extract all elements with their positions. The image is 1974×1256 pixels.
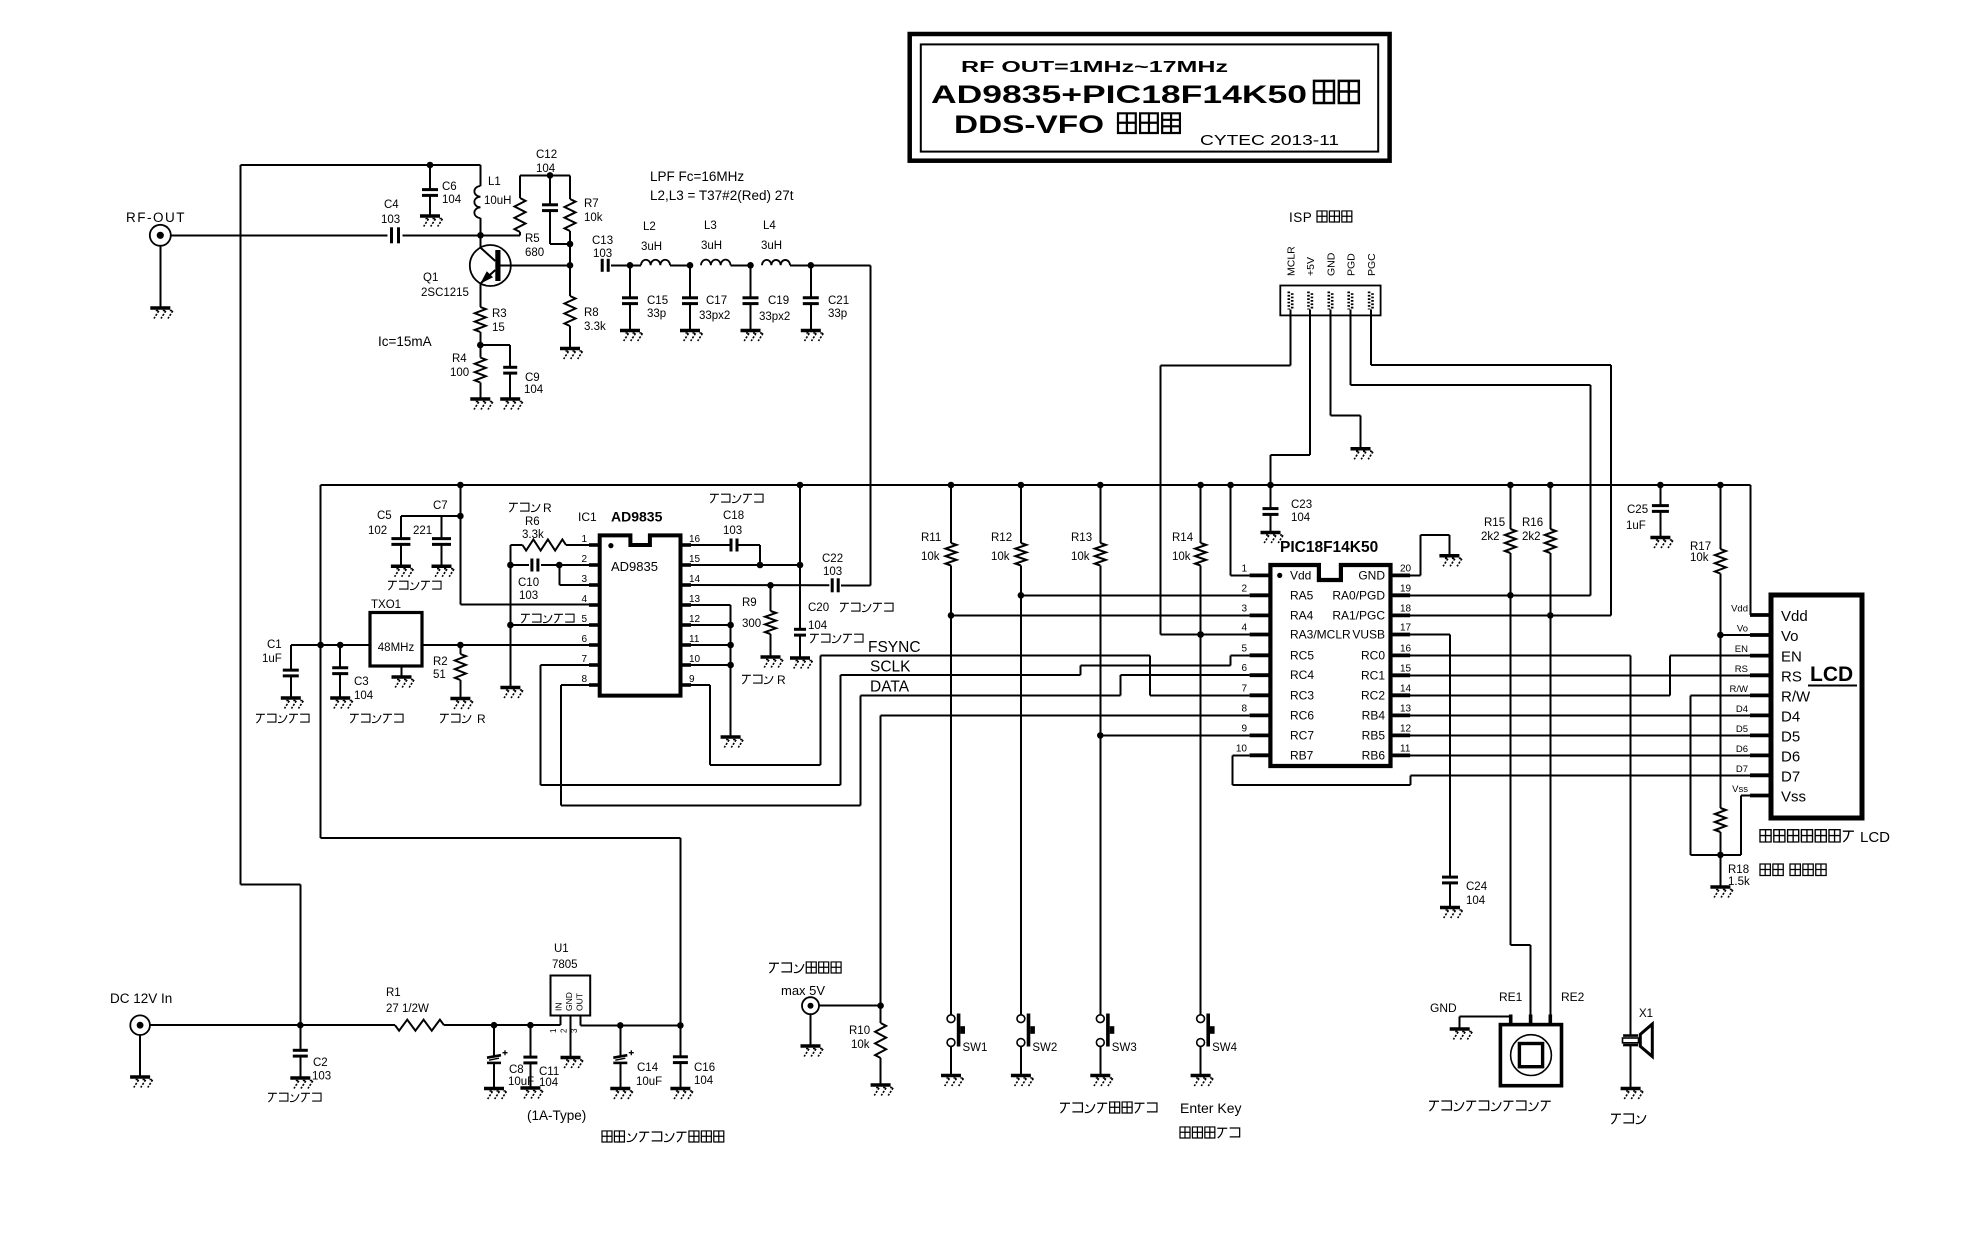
svg-text:D7: D7 bbox=[1781, 768, 1800, 785]
svg-text:10: 10 bbox=[1236, 743, 1248, 754]
svg-text:9: 9 bbox=[689, 674, 695, 685]
svg-text:R/W: R/W bbox=[1781, 688, 1811, 705]
svg-text:IN: IN bbox=[553, 1003, 563, 1012]
svg-text:R2: R2 bbox=[433, 656, 448, 668]
svg-text:Vss: Vss bbox=[1732, 784, 1748, 795]
svg-text:C9: C9 bbox=[525, 372, 540, 384]
svg-text:GND: GND bbox=[1358, 569, 1385, 583]
svg-text:4: 4 bbox=[1241, 623, 1247, 634]
svg-text:GND: GND bbox=[1430, 1001, 1457, 1015]
svg-text:12: 12 bbox=[1400, 723, 1412, 734]
svg-text:17: 17 bbox=[1400, 623, 1412, 634]
svg-text:RA4: RA4 bbox=[1290, 608, 1314, 622]
svg-text:C5: C5 bbox=[377, 510, 392, 522]
svg-text:6: 6 bbox=[581, 634, 587, 645]
svg-text:11: 11 bbox=[1400, 743, 1411, 754]
svg-text:C6: C6 bbox=[442, 181, 457, 193]
svg-text:C4: C4 bbox=[384, 199, 399, 211]
svg-text:104: 104 bbox=[539, 1077, 559, 1089]
svg-text:MCLR: MCLR bbox=[1286, 246, 1298, 276]
svg-text:27 1/2W: 27 1/2W bbox=[386, 1003, 429, 1015]
svg-text:PGC: PGC bbox=[1366, 253, 1378, 276]
svg-text:D7: D7 bbox=[1736, 764, 1748, 775]
svg-text:Vdd: Vdd bbox=[1290, 569, 1311, 583]
svg-text:RF-OUT: RF-OUT bbox=[126, 210, 186, 225]
svg-text:RA1/PGC: RA1/PGC bbox=[1332, 608, 1385, 622]
svg-text:GND: GND bbox=[1326, 252, 1338, 276]
svg-text:C15: C15 bbox=[647, 295, 668, 307]
svg-text:103: 103 bbox=[519, 590, 538, 602]
svg-text:IC1: IC1 bbox=[578, 510, 597, 524]
svg-text:R4: R4 bbox=[452, 353, 467, 365]
svg-text:Vss: Vss bbox=[1781, 789, 1806, 806]
svg-text:C7: C7 bbox=[433, 500, 448, 512]
svg-text:R/W: R/W bbox=[1730, 684, 1749, 695]
svg-text:11: 11 bbox=[689, 634, 700, 645]
svg-text:C2: C2 bbox=[313, 1057, 328, 1069]
svg-text:33p: 33p bbox=[647, 308, 666, 320]
svg-text:Vo: Vo bbox=[1737, 624, 1748, 635]
svg-text:EN: EN bbox=[1735, 644, 1748, 655]
svg-text:3: 3 bbox=[581, 574, 587, 585]
svg-text:10k: 10k bbox=[851, 1039, 870, 1051]
svg-text:10uF: 10uF bbox=[636, 1076, 662, 1088]
svg-text:D6: D6 bbox=[1736, 744, 1748, 755]
svg-text:48MHz: 48MHz bbox=[378, 642, 415, 654]
svg-text:103: 103 bbox=[823, 566, 842, 578]
svg-text:D6: D6 bbox=[1781, 748, 1800, 765]
svg-text:PIC18F14K50: PIC18F14K50 bbox=[1280, 539, 1378, 556]
svg-text:104: 104 bbox=[694, 1075, 714, 1087]
svg-text:5: 5 bbox=[1241, 643, 1247, 654]
svg-text:R6: R6 bbox=[525, 516, 540, 528]
svg-text:R14: R14 bbox=[1172, 532, 1194, 544]
svg-text:300: 300 bbox=[742, 618, 761, 630]
svg-text:104: 104 bbox=[1291, 512, 1311, 524]
svg-text:Vdd: Vdd bbox=[1781, 608, 1808, 625]
svg-text:7: 7 bbox=[1241, 683, 1247, 694]
svg-text:4: 4 bbox=[581, 594, 587, 605]
svg-text:C19: C19 bbox=[768, 295, 789, 307]
svg-text:L2,L3 = T37#2(Red) 27t: L2,L3 = T37#2(Red) 27t bbox=[650, 188, 794, 203]
svg-text:R16: R16 bbox=[1522, 517, 1543, 529]
svg-text:103: 103 bbox=[723, 525, 742, 537]
svg-text:C24: C24 bbox=[1466, 881, 1488, 893]
svg-text:12: 12 bbox=[689, 614, 701, 625]
svg-text:RE2: RE2 bbox=[1561, 990, 1585, 1004]
svg-text:C13: C13 bbox=[592, 235, 613, 247]
svg-text:1: 1 bbox=[1241, 563, 1247, 574]
svg-text:L3: L3 bbox=[704, 220, 717, 232]
svg-text:RA5: RA5 bbox=[1290, 588, 1314, 602]
svg-text:RS: RS bbox=[1735, 664, 1748, 675]
svg-text:C8: C8 bbox=[509, 1064, 524, 1076]
svg-text:1: 1 bbox=[581, 534, 587, 545]
svg-text:R7: R7 bbox=[584, 198, 599, 210]
svg-text:RC0: RC0 bbox=[1361, 648, 1385, 662]
svg-text:20: 20 bbox=[1400, 563, 1412, 574]
svg-text:R15: R15 bbox=[1484, 517, 1505, 529]
svg-text:D4: D4 bbox=[1736, 704, 1748, 715]
svg-text:(1A-Type): (1A-Type) bbox=[527, 1108, 586, 1123]
svg-text:FSYNC: FSYNC bbox=[868, 639, 921, 656]
svg-text:3: 3 bbox=[1241, 603, 1247, 614]
svg-text:R13: R13 bbox=[1071, 532, 1092, 544]
svg-text:R3: R3 bbox=[492, 308, 507, 320]
svg-text:2: 2 bbox=[1241, 583, 1247, 594]
svg-text:16: 16 bbox=[1400, 643, 1412, 654]
svg-text:RA0/PGD: RA0/PGD bbox=[1332, 588, 1385, 602]
svg-text:C17: C17 bbox=[706, 295, 727, 307]
svg-text:SW2: SW2 bbox=[1032, 1042, 1057, 1054]
svg-text:D4: D4 bbox=[1781, 708, 1800, 725]
svg-text:103: 103 bbox=[312, 1071, 331, 1083]
svg-text:RA3/MCLR: RA3/MCLR bbox=[1290, 628, 1351, 642]
svg-text:3uH: 3uH bbox=[761, 240, 782, 252]
svg-text:1uF: 1uF bbox=[262, 653, 282, 665]
svg-text:33px2: 33px2 bbox=[759, 311, 790, 323]
svg-text:33p: 33p bbox=[828, 308, 847, 320]
svg-text:RC1: RC1 bbox=[1361, 668, 1385, 682]
svg-text:Ic=15mA: Ic=15mA bbox=[378, 334, 432, 349]
svg-text:103: 103 bbox=[381, 214, 400, 226]
svg-text:R5: R5 bbox=[525, 233, 540, 245]
svg-text:OUT: OUT bbox=[574, 993, 584, 1011]
svg-text:Q1: Q1 bbox=[423, 272, 438, 284]
svg-text:RF OUT=1MHz~17MHz: RF OUT=1MHz~17MHz bbox=[961, 59, 1228, 76]
svg-text:5: 5 bbox=[581, 614, 587, 625]
svg-text:3uH: 3uH bbox=[641, 241, 662, 253]
svg-text:LCD: LCD bbox=[1860, 829, 1890, 846]
svg-text:CYTEC 2013-11: CYTEC 2013-11 bbox=[1200, 132, 1339, 149]
svg-text:104: 104 bbox=[354, 690, 374, 702]
svg-text:3.3k: 3.3k bbox=[522, 529, 544, 541]
svg-text:51: 51 bbox=[433, 669, 446, 681]
svg-text:221: 221 bbox=[413, 525, 432, 537]
svg-text:2: 2 bbox=[581, 554, 587, 565]
svg-text:Vdd: Vdd bbox=[1731, 604, 1748, 615]
svg-text:3: 3 bbox=[570, 1028, 579, 1033]
svg-text:D5: D5 bbox=[1781, 728, 1800, 745]
svg-text:AD9835: AD9835 bbox=[611, 559, 658, 574]
svg-text:104: 104 bbox=[524, 384, 544, 396]
svg-text:R11: R11 bbox=[921, 532, 941, 544]
svg-text:2k2: 2k2 bbox=[1481, 531, 1500, 543]
svg-text:33px2: 33px2 bbox=[699, 310, 730, 322]
svg-text:13: 13 bbox=[689, 594, 701, 605]
svg-text:C20: C20 bbox=[808, 602, 829, 614]
svg-text:15: 15 bbox=[1400, 663, 1412, 674]
svg-text:VUSB: VUSB bbox=[1352, 628, 1385, 642]
svg-text:18: 18 bbox=[1400, 603, 1412, 614]
svg-text:104: 104 bbox=[536, 163, 556, 175]
svg-text:1uF: 1uF bbox=[1626, 520, 1646, 532]
svg-text:C10: C10 bbox=[518, 577, 539, 589]
svg-text:RC4: RC4 bbox=[1290, 668, 1314, 682]
svg-text:104: 104 bbox=[808, 620, 828, 632]
svg-text:Vo: Vo bbox=[1781, 628, 1799, 645]
svg-text:3.3k: 3.3k bbox=[584, 321, 606, 333]
svg-text:TXO1: TXO1 bbox=[371, 599, 401, 611]
svg-text:R9: R9 bbox=[742, 597, 757, 609]
svg-text:SW3: SW3 bbox=[1112, 1042, 1137, 1054]
svg-text:U1: U1 bbox=[554, 943, 569, 955]
svg-text:RC7: RC7 bbox=[1290, 728, 1314, 742]
svg-text:C3: C3 bbox=[354, 676, 369, 688]
svg-text:C23: C23 bbox=[1291, 499, 1312, 511]
svg-text:R12: R12 bbox=[991, 532, 1012, 544]
svg-text:104: 104 bbox=[442, 194, 462, 206]
svg-text:C1: C1 bbox=[267, 639, 282, 651]
svg-text:10k: 10k bbox=[1071, 551, 1090, 563]
svg-text:RC2: RC2 bbox=[1361, 688, 1385, 702]
svg-text:EN: EN bbox=[1781, 649, 1802, 666]
svg-text:SW1: SW1 bbox=[963, 1042, 988, 1054]
svg-text:3uH: 3uH bbox=[701, 240, 722, 252]
svg-text:PGD: PGD bbox=[1345, 253, 1357, 276]
svg-text:6: 6 bbox=[1241, 663, 1247, 674]
svg-text:10k: 10k bbox=[991, 551, 1010, 563]
svg-text:C25: C25 bbox=[1627, 504, 1648, 516]
svg-text:RB5: RB5 bbox=[1362, 728, 1386, 742]
svg-text:8: 8 bbox=[1241, 703, 1247, 714]
svg-text:R1: R1 bbox=[386, 987, 401, 999]
svg-text:DC 12V In: DC 12V In bbox=[110, 991, 172, 1006]
svg-text:8: 8 bbox=[581, 674, 587, 685]
svg-text:14: 14 bbox=[689, 574, 701, 585]
svg-text:+5V: +5V bbox=[1305, 257, 1317, 276]
svg-text:C16: C16 bbox=[694, 1062, 715, 1074]
svg-text:X1: X1 bbox=[1639, 1008, 1653, 1020]
svg-text:10k: 10k bbox=[584, 212, 603, 224]
svg-text:DDS-VFO: DDS-VFO bbox=[954, 111, 1104, 139]
svg-text:LPF Fc=16MHz: LPF Fc=16MHz bbox=[650, 169, 744, 184]
svg-text:R: R bbox=[543, 501, 552, 515]
svg-text:C22: C22 bbox=[822, 553, 843, 565]
svg-text:RC5: RC5 bbox=[1290, 648, 1314, 662]
svg-text:9: 9 bbox=[1241, 723, 1247, 734]
svg-text:10uH: 10uH bbox=[484, 195, 512, 207]
svg-text:D5: D5 bbox=[1736, 724, 1748, 735]
svg-text:DATA: DATA bbox=[870, 679, 910, 696]
svg-text:R10: R10 bbox=[849, 1025, 870, 1037]
svg-text:GND: GND bbox=[564, 992, 574, 1011]
svg-text:RC6: RC6 bbox=[1290, 708, 1314, 722]
svg-text:L1: L1 bbox=[488, 176, 501, 188]
svg-text:R: R bbox=[477, 712, 486, 726]
svg-text:7: 7 bbox=[581, 654, 587, 665]
svg-text:C14: C14 bbox=[637, 1062, 659, 1074]
svg-text:SW4: SW4 bbox=[1212, 1042, 1238, 1054]
svg-text:2SC1215: 2SC1215 bbox=[421, 287, 469, 299]
svg-text:Enter Key: Enter Key bbox=[1180, 1100, 1241, 1116]
svg-text:C21: C21 bbox=[828, 295, 849, 307]
svg-text:680: 680 bbox=[525, 247, 544, 259]
svg-text:14: 14 bbox=[1400, 683, 1412, 694]
svg-text:RS: RS bbox=[1781, 668, 1802, 685]
svg-text:7805: 7805 bbox=[552, 959, 578, 971]
svg-text:R: R bbox=[777, 673, 786, 687]
svg-text:R8: R8 bbox=[584, 307, 599, 319]
svg-text:10k: 10k bbox=[921, 551, 940, 563]
svg-text:103: 103 bbox=[593, 248, 612, 260]
svg-text:ISP: ISP bbox=[1289, 210, 1312, 225]
svg-text:L4: L4 bbox=[763, 220, 776, 232]
svg-text:100: 100 bbox=[450, 367, 469, 379]
svg-text:15: 15 bbox=[689, 554, 701, 565]
svg-text:2: 2 bbox=[560, 1028, 569, 1033]
svg-text:104: 104 bbox=[1466, 895, 1486, 907]
svg-text:102: 102 bbox=[368, 525, 387, 537]
svg-text:max 5V: max 5V bbox=[781, 983, 825, 998]
svg-text:1.5k: 1.5k bbox=[1728, 876, 1750, 888]
svg-text:AD9835: AD9835 bbox=[611, 509, 663, 525]
svg-text:AD9835+PIC18F14K50: AD9835+PIC18F14K50 bbox=[931, 81, 1307, 109]
svg-text:C12: C12 bbox=[536, 149, 557, 161]
svg-text:RB4: RB4 bbox=[1362, 708, 1386, 722]
svg-text:LCD: LCD bbox=[1810, 663, 1853, 686]
svg-text:SCLK: SCLK bbox=[870, 659, 911, 676]
svg-text:RC3: RC3 bbox=[1290, 688, 1314, 702]
svg-text:RE1: RE1 bbox=[1499, 990, 1523, 1004]
svg-text:10: 10 bbox=[689, 654, 701, 665]
svg-text:RB7: RB7 bbox=[1290, 748, 1314, 762]
svg-text:15: 15 bbox=[492, 322, 505, 334]
svg-text:RB6: RB6 bbox=[1362, 748, 1386, 762]
svg-text:10k: 10k bbox=[1172, 551, 1191, 563]
svg-text:16: 16 bbox=[689, 534, 701, 545]
svg-text:10k: 10k bbox=[1690, 552, 1709, 564]
svg-text:R18: R18 bbox=[1728, 864, 1749, 876]
svg-text:C18: C18 bbox=[723, 510, 744, 522]
svg-text:2k2: 2k2 bbox=[1522, 531, 1541, 543]
svg-text:1: 1 bbox=[549, 1028, 558, 1033]
svg-text:13: 13 bbox=[1400, 703, 1412, 714]
svg-text:L2: L2 bbox=[643, 221, 656, 233]
svg-text:19: 19 bbox=[1400, 583, 1412, 594]
